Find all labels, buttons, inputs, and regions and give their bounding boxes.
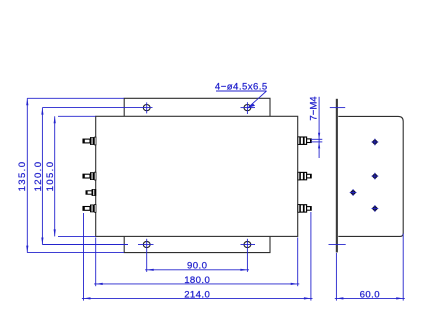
90.0 arrows [147, 269, 154, 271]
terminal diamond row4 [372, 205, 379, 212]
dim line 135.0 [26, 98, 28, 252]
terminal stud left row1 [83, 137, 96, 146]
180.0 arrows [96, 283, 103, 285]
60.0 arrows [336, 297, 343, 299]
dim line 180.0 [94, 283, 299, 285]
leader arrow at hole [248, 104, 255, 108]
terminal stud right row2 [298, 172, 312, 181]
svg-text:90.0: 90.0 [187, 261, 207, 272]
mounting hole top-left [143, 105, 150, 111]
svg-text:120.0: 120.0 [33, 161, 44, 192]
side flange plate (edge-on) [336, 99, 338, 253]
side centerline tick top [330, 107, 345, 109]
dim line 90.0 [145, 269, 249, 271]
dim line 105.0 [54, 116, 56, 236]
arrows (blue) [26, 98, 403, 299]
ext line flange bottom [27, 252, 124, 254]
underline 4-d4.5x6.5 [216, 90, 267, 92]
filter body outline [96, 116, 298, 236]
ext lines 214.0 [83, 213, 85, 301]
hole cross horizontal top-right [241, 107, 256, 109]
terminal diamond row2 [372, 173, 379, 180]
terminal stud right row1 [298, 136, 312, 145]
terminal stud left row4 [83, 204, 96, 213]
centerline bottom holes row [42, 244, 128, 246]
mounting hole bottom-right [244, 241, 251, 247]
mounting hole top-right [244, 105, 251, 111]
stud ext lines 7-M4 [311, 138, 323, 140]
hole cross verticals top [146, 102, 148, 113]
terminal stud right row4 [298, 204, 312, 213]
terminal stud left row2 [83, 172, 96, 181]
centerline top holes row [42, 107, 152, 109]
ext line body bottom [58, 235, 96, 237]
7-M4 arrows [318, 133, 320, 140]
dim 60.0 ext+line [335, 234, 405, 301]
ext lines 180.0 [95, 238, 97, 287]
svg-text:135.0: 135.0 [17, 161, 28, 192]
bottom mounting flange tab [124, 236, 270, 252]
terminal stud left row3 (small) [86, 189, 96, 196]
hole cross+ext bottom-left [146, 239, 148, 272]
svg-text:214.0: 214.0 [184, 289, 210, 300]
120.0 arrows [41, 108, 43, 115]
ext line body top [58, 115, 96, 117]
svg-text:180.0: 180.0 [184, 275, 210, 286]
svg-text:105.0: 105.0 [45, 161, 56, 192]
ext line flange top [27, 97, 124, 99]
dim line 214.0 [82, 297, 313, 299]
leader 4-d4.5x6.5 [248, 91, 267, 108]
side centerline tick bottom [329, 244, 346, 246]
terminal diamond row1 [372, 139, 379, 146]
105.0 arrows [54, 116, 56, 123]
top mounting flange tab [124, 98, 270, 116]
terminal diamond row3 [350, 189, 357, 196]
dim line 120.0 [41, 108, 43, 245]
135.0 arrows [26, 98, 28, 105]
dim 7-M4 vertical line [318, 97, 320, 158]
mounting hole bottom-left [143, 241, 150, 247]
svg-text:7−M4: 7−M4 [309, 96, 320, 121]
dimension texts [17, 82, 380, 301]
214.0 arrows [84, 297, 91, 299]
svg-text:4−ø4.5x6.5: 4−ø4.5x6.5 [215, 82, 268, 93]
hole cross+ext bottom-right [246, 239, 248, 272]
side body outline [338, 116, 403, 236]
